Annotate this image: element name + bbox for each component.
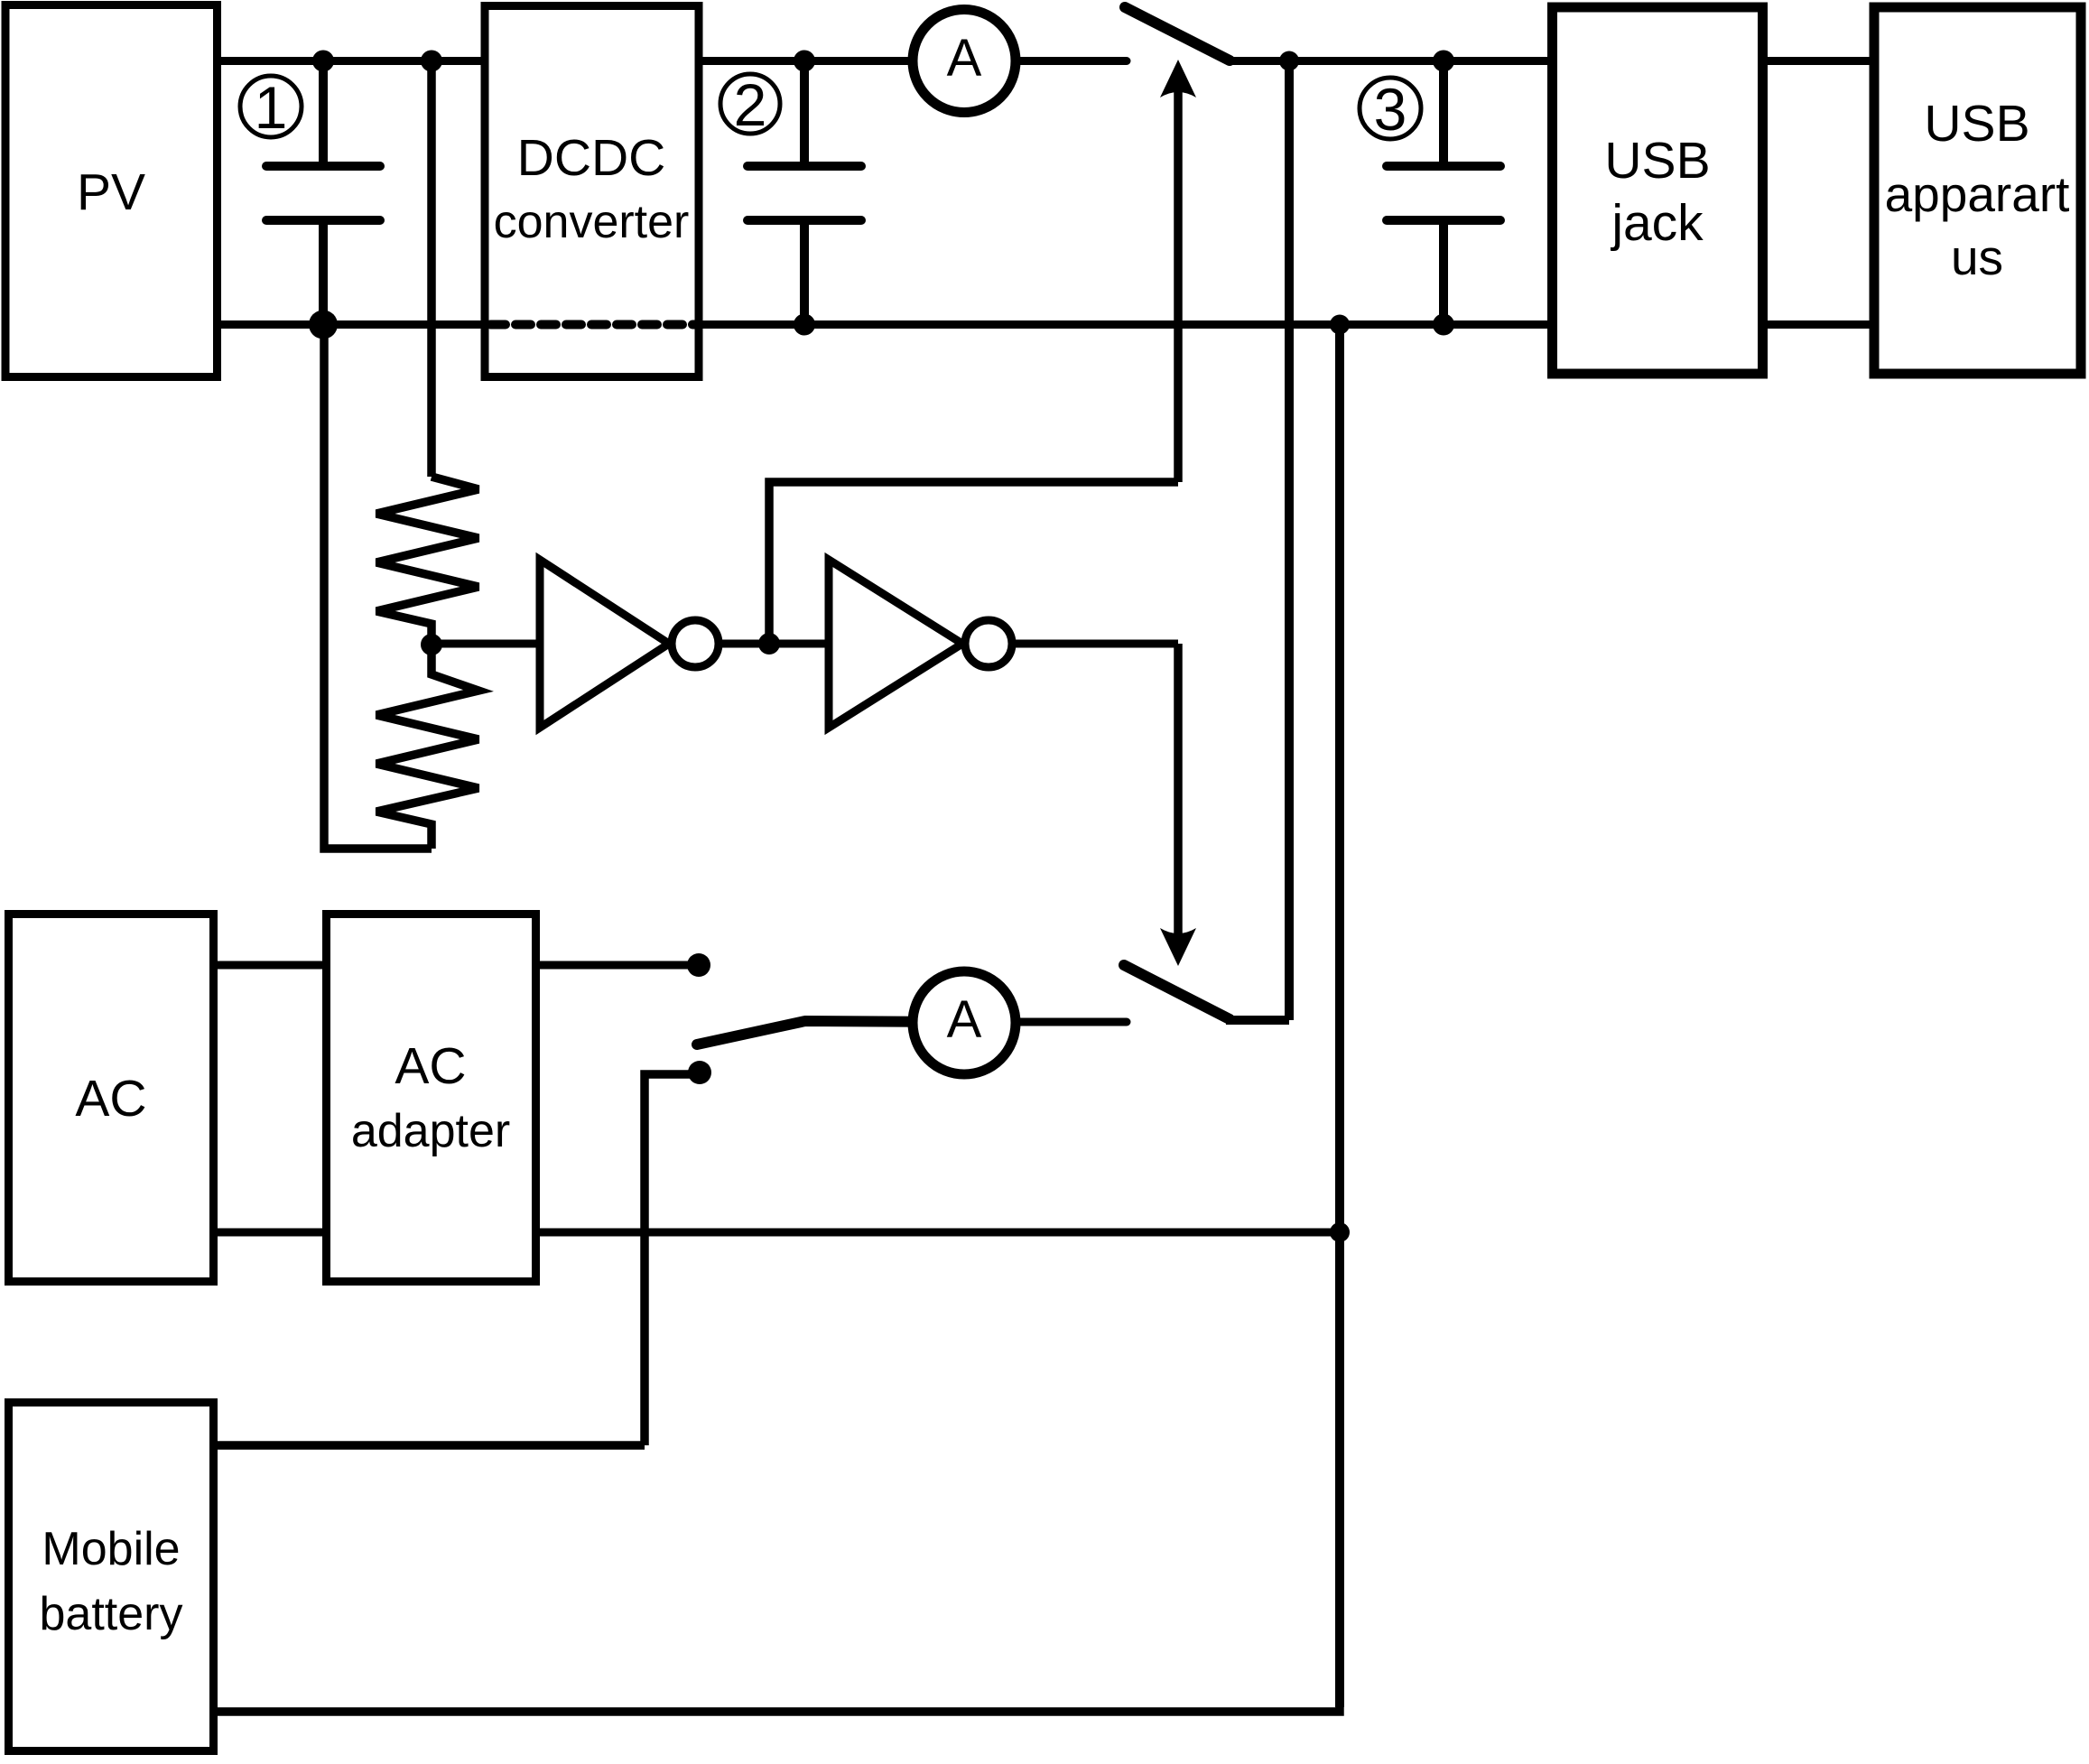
svg-text:AC: AC <box>395 1037 466 1095</box>
svg-text:battery: battery <box>40 1588 183 1640</box>
inverter U2 <box>829 560 962 728</box>
resistor R1 <box>376 477 478 645</box>
arrow head down at SW2 <box>1160 928 1196 966</box>
inverter U1 bubble <box>672 620 719 667</box>
wire: right vertical bus from bottom rail down <box>1335 325 1344 1233</box>
ammeter A1 <box>913 10 1016 113</box>
wire: SW3 lower terminal L-wire to battery top wire <box>645 1074 695 1445</box>
capacitor C2 <box>747 61 861 325</box>
node: junction dot bottom rail right bus <box>1330 315 1350 335</box>
inverter U2 bubble <box>965 620 1012 667</box>
wire: AC adapter output to SW3 upper terminal <box>540 961 695 970</box>
svg-text:AC: AC <box>75 1070 146 1128</box>
wire: node to inverter U2 input <box>769 640 829 648</box>
svg-text:us: us <box>1951 229 2003 285</box>
switch SW2 blade (bottom right) <box>1124 965 1230 1019</box>
svg-text:2: 2 <box>734 71 767 138</box>
node: junction dot at adapter bottom rail <box>1330 1222 1350 1242</box>
svg-text:A: A <box>947 990 982 1049</box>
switch SW1 blade (top) <box>1125 7 1230 60</box>
node: SW3 upper terminal dot <box>687 953 710 977</box>
wire: AC to AC adapter top <box>218 961 327 970</box>
wire: control arrow shaft down to SW2 <box>1174 644 1183 935</box>
label: circled 3 <box>1360 76 1421 143</box>
resistor R2 <box>376 645 478 849</box>
node: divider tap junction dot <box>421 634 442 655</box>
svg-text:Mobile: Mobile <box>42 1523 180 1575</box>
svg-text:1: 1 <box>255 74 288 141</box>
block: AC <box>9 914 214 1282</box>
svg-text:adapter: adapter <box>351 1105 510 1157</box>
node: junction dot C3 bottom <box>1433 314 1454 336</box>
svg-text:USB: USB <box>1604 132 1710 190</box>
wire: mobile battery bottom wire <box>218 1232 1340 1712</box>
switch SW3 blade (changeover) <box>697 1021 964 1044</box>
node: junction dot C2 bottom <box>794 314 815 336</box>
svg-text:A: A <box>947 29 982 88</box>
wire: dashed rail inside DCDC converter <box>490 320 695 330</box>
block: USB jack <box>1553 7 1763 374</box>
node: junction dot C2 top <box>794 51 815 72</box>
arrow head up at SW1 <box>1160 60 1196 97</box>
wire: ammeter A2 to SW2 gap <box>964 1018 1127 1026</box>
ammeter A2 <box>913 971 1016 1074</box>
wire: AC to AC adapter bottom <box>218 1229 327 1237</box>
wire: inverter U2 output across <box>962 640 1178 648</box>
wire: top rail DCDC to ammeter A1 <box>699 57 964 65</box>
svg-text:3: 3 <box>1374 76 1407 143</box>
svg-text:PV: PV <box>77 163 145 221</box>
wire: AC adapter bottom rail to right bus <box>540 1229 1340 1237</box>
wire: ammeter A1 to switch SW1 gap <box>964 57 1127 65</box>
wire: SW2 stub to vertical <box>1226 1016 1289 1025</box>
node: junction dot at top of divider <box>421 51 442 72</box>
node: junction dot SW1 output <box>1279 51 1299 71</box>
capacitor C3 <box>1387 61 1500 325</box>
block: PV <box>5 5 218 377</box>
node: SW3 lower terminal dot <box>688 1061 711 1084</box>
inverter U1 <box>540 560 669 728</box>
block: DCDC converter <box>485 6 699 377</box>
block: USB apparatus <box>1874 7 2081 374</box>
block: Mobile battery <box>9 1403 214 1751</box>
label: circled 1 <box>240 74 302 141</box>
capacitor C1 <box>266 61 380 325</box>
node: junction dot C1 bottom (large) <box>309 311 338 339</box>
node: junction dot C3 top <box>1433 51 1454 72</box>
wire: USB jack to USB apparatus bottom <box>1767 320 1870 329</box>
node: junction dot between inverters <box>758 633 780 655</box>
wire: resistor bottom return to bottom rail <box>324 325 432 850</box>
wire: top rail PV to DCDC <box>221 57 485 65</box>
wire: USB jack to USB apparatus top <box>1767 57 1870 65</box>
wire: U1 output up and across to SW1 control <box>769 482 1178 644</box>
wire: bottom rail PV to DCDC <box>221 320 485 329</box>
svg-text:USB: USB <box>1924 95 2029 153</box>
svg-text:DCDC: DCDC <box>517 129 666 187</box>
wire: control arrow shaft up to SW1 <box>1174 90 1183 482</box>
wire: bottom rail DCDC to USB jack <box>699 320 1548 329</box>
wire: vertical from SW1 node down to SW2 <box>1285 61 1294 1021</box>
wire: vertical from top rail to resistor R1 <box>427 61 436 478</box>
label: circled 2 <box>720 71 780 138</box>
svg-text:jack: jack <box>1610 194 1704 252</box>
block: AC adapter <box>327 914 536 1282</box>
wire: right bus down to battery bottom wire <box>1335 1232 1344 1707</box>
wire: inverter U1 output to node <box>669 640 769 648</box>
svg-text:converter: converter <box>494 196 690 248</box>
svg-text:apparart: apparart <box>1885 166 2070 222</box>
wire: divider tap to inverter U1 input <box>432 640 542 648</box>
node: junction dot C1 top <box>312 51 334 72</box>
wire: mobile battery top wire <box>218 1441 645 1450</box>
wire: switch SW1 to USB jack <box>1228 57 1548 65</box>
